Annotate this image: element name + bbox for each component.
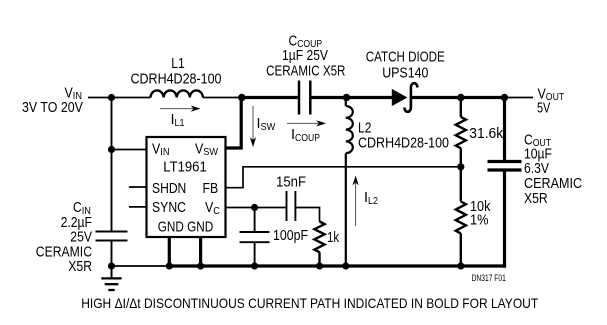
- arrow IL2: [353, 176, 379, 227]
- svg-text:X5R: X5R: [524, 191, 548, 207]
- node switch (dot): [238, 94, 245, 101]
- node VOUT (dot): [501, 94, 508, 101]
- svg-text:IL1: IL1: [171, 112, 185, 129]
- wire bold: CCOUP to diode: [312, 96, 393, 99]
- inductor L2: [346, 98, 353, 267]
- node VC junction (dot): [251, 204, 258, 211]
- pin stub SHDN: [129, 186, 147, 188]
- svg-text:IL2: IL2: [364, 190, 378, 207]
- ground: [101, 266, 121, 290]
- svg-text:2.2µF: 2.2µF: [61, 215, 93, 231]
- svg-text:CDRH4D28-100: CDRH4D28-100: [131, 72, 222, 88]
- wire L1 to switch node: [203, 97, 242, 99]
- svg-text:31.6k: 31.6k: [469, 126, 504, 142]
- inductor L1: [151, 90, 203, 97]
- node FB junction (dot): [457, 163, 464, 170]
- capacitor CCOUP: [299, 81, 310, 115]
- label L2: [358, 120, 449, 151]
- wire VC pin: [226, 207, 286, 209]
- svg-text:VSW: VSW: [195, 141, 218, 158]
- label CIN: [36, 200, 92, 275]
- node GND pin2 (dot): [197, 262, 204, 269]
- svg-text:GND GND: GND GND: [158, 219, 213, 235]
- svg-text:SYNC: SYNC: [152, 200, 186, 216]
- label VOUT: [537, 86, 565, 116]
- svg-text:CDRH4D28-100: CDRH4D28-100: [358, 135, 449, 151]
- node C100pF bottom (dot): [251, 262, 258, 269]
- pin stub SYNC: [129, 206, 147, 208]
- label U1 pins: [152, 141, 220, 235]
- svg-text:CERAMIC X5R: CERAMIC X5R: [266, 63, 345, 79]
- svg-text:25V: 25V: [70, 230, 92, 246]
- op-amp U1 LT1961 box: [147, 137, 226, 237]
- svg-text:FB: FB: [203, 181, 219, 197]
- svg-text:UPS140: UPS140: [382, 66, 428, 82]
- wire VSW bold: [226, 98, 241, 149]
- diode D1: [392, 83, 418, 112]
- wire vertical VIN to CIN: [111, 98, 113, 232]
- svg-text:DN317 F01: DN317 F01: [472, 273, 506, 283]
- node GND pin1 (dot): [166, 262, 173, 269]
- resistor R2 10k: [456, 167, 466, 266]
- node L2 bottom (dot): [342, 262, 349, 269]
- label D1: [366, 49, 445, 81]
- wire 15nF to 1k: [295, 208, 319, 222]
- svg-text:LT1961: LT1961: [163, 160, 207, 176]
- node junction VIN (dot): [108, 94, 115, 101]
- svg-text:15nF: 15nF: [276, 175, 306, 191]
- node junction VIN pin (dot): [108, 146, 115, 153]
- svg-text:CERAMIC: CERAMIC: [36, 244, 92, 260]
- svg-text:CERAMIC: CERAMIC: [524, 176, 582, 192]
- svg-text:HIGH ΔI/Δt DISCONTINUOUS CURRE: HIGH ΔI/Δt DISCONTINUOUS CURRENT PATH IN…: [81, 295, 538, 311]
- transistor GND pin 2 (bold): [199, 237, 202, 266]
- svg-text:5V: 5V: [537, 100, 551, 116]
- svg-text:X5R: X5R: [68, 259, 92, 275]
- label L1: [131, 56, 222, 88]
- svg-text:L1: L1: [171, 56, 185, 72]
- node R1 top (dot): [457, 94, 464, 101]
- capacitor CIN: [96, 232, 128, 267]
- svg-text:1%: 1%: [470, 212, 489, 228]
- node junction CIN/ground (dot): [108, 262, 115, 269]
- svg-text:CATCH DIODE: CATCH DIODE: [366, 49, 445, 65]
- wire ground rail thin segment: [112, 265, 170, 267]
- wire VOUT stub: [505, 97, 534, 99]
- node L2 top (dot): [343, 94, 350, 101]
- capacitor C15nF: [287, 191, 296, 221]
- wire bold: switch node to CCOUP: [242, 96, 298, 99]
- svg-text:6.3V: 6.3V: [524, 161, 549, 177]
- arrow ICOUP: [287, 120, 326, 144]
- wire bold: diode to VOUT node: [411, 96, 505, 99]
- arrow ISW: [250, 106, 275, 147]
- svg-text:ISW: ISW: [257, 116, 276, 133]
- svg-text:ICOUP: ICOUP: [291, 127, 320, 144]
- capacitor C100pF: [240, 208, 270, 267]
- svg-text:L2: L2: [358, 120, 372, 136]
- svg-text:1k: 1k: [327, 230, 340, 246]
- svg-text:3V TO 20V: 3V TO 20V: [22, 100, 83, 116]
- resistor R3 1k: [314, 222, 324, 267]
- resistor R1 31.6k: [456, 98, 466, 167]
- svg-text:SHDN: SHDN: [152, 181, 186, 197]
- arrow IL1: [160, 106, 201, 129]
- label CCOUP: [266, 33, 345, 79]
- svg-text:1µF 25V: 1µF 25V: [282, 48, 328, 64]
- label COUT: [524, 132, 582, 207]
- wire ground rail bold: [169, 264, 506, 267]
- wire FB net: [226, 167, 461, 188]
- wire VIN pin: [112, 149, 147, 151]
- transistor GND pin 1 (bold): [168, 237, 171, 266]
- svg-text:100pF: 100pF: [273, 228, 308, 244]
- label R2: [470, 199, 491, 228]
- capacitor COUT bold: [488, 98, 522, 268]
- svg-text:VC: VC: [205, 200, 220, 217]
- svg-text:VIN: VIN: [152, 141, 170, 158]
- node VIN label: [22, 85, 83, 116]
- wire VIN input stub: [88, 97, 151, 99]
- node R3 bottom (dot): [316, 262, 323, 269]
- node R2 bottom (dot): [457, 262, 464, 269]
